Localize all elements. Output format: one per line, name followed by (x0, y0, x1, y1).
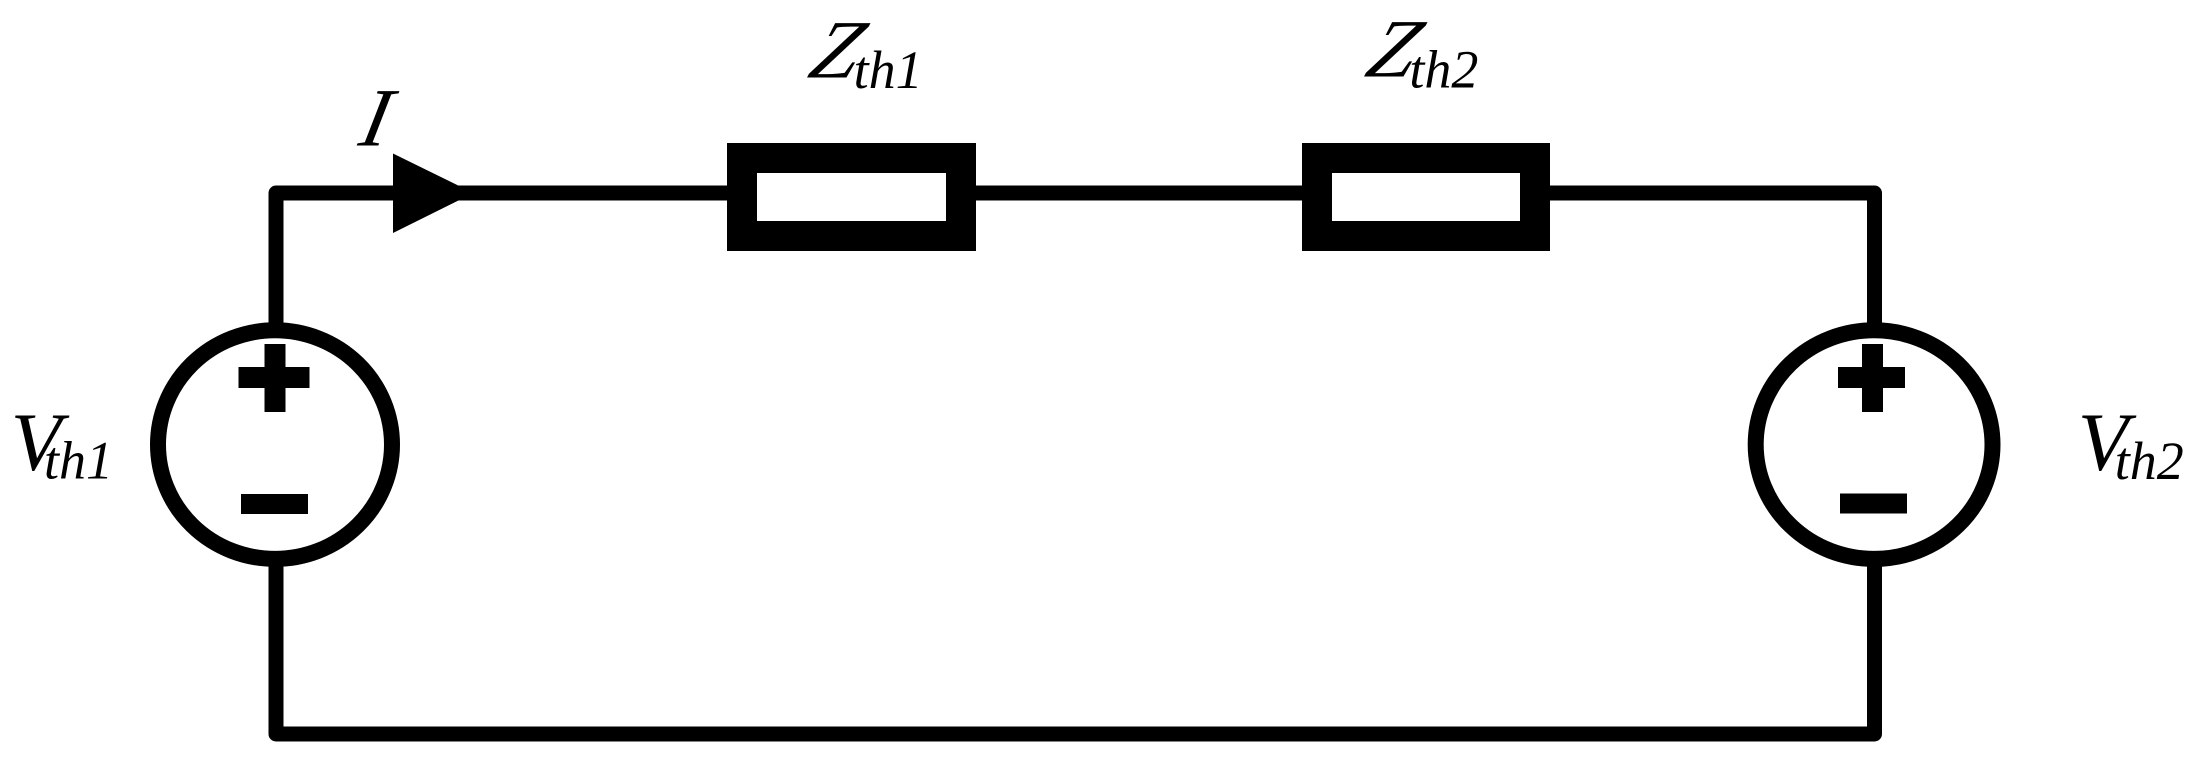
svg-text:th2: th2 (1409, 40, 1478, 100)
label Vth1 (11, 396, 113, 491)
label Zth2 (1357, 3, 1478, 99)
svg-text:th1: th1 (44, 431, 113, 491)
svg-text:th2: th2 (2115, 431, 2184, 491)
svg-text:I: I (352, 72, 404, 164)
label Zth1 (800, 4, 923, 100)
label Vth2 (2078, 396, 2184, 491)
voltage source Vth2 circle (1756, 330, 1993, 559)
resistor Zth1 (742, 158, 961, 236)
Vth2 plus sign (1838, 344, 1905, 412)
resistor Zth2 (1317, 158, 1535, 236)
svg-text:th1: th1 (854, 40, 923, 100)
voltage source Vth1 circle (158, 330, 392, 559)
Vth1 plus sign (239, 344, 310, 412)
wire bottom rail with corner joins (276, 560, 1875, 734)
current arrow I (393, 154, 474, 234)
wire from Zth2 to top-right corner and down to Vth2 (1550, 193, 1875, 330)
wire between Zth1 and Zth2 (976, 186, 1302, 201)
wire from Vth2 bottom to bottom rail (1867, 560, 1882, 734)
Vth2 minus sign (1840, 494, 1907, 514)
wire top-left vertical from Vth1 plus terminal to top rail (276, 193, 727, 330)
Vth1 minus sign (241, 494, 308, 514)
